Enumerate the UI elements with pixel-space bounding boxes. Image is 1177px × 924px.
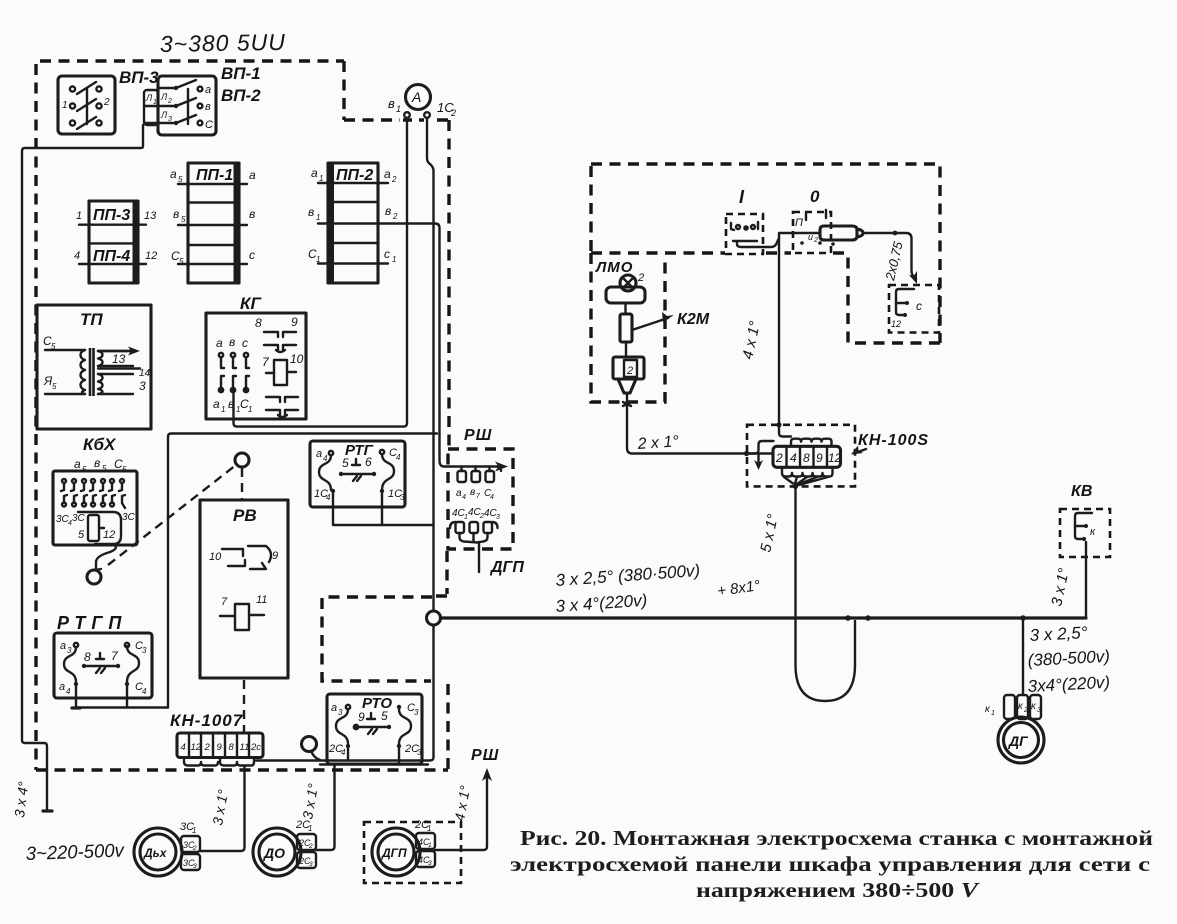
RTO bottom pin wires	[348, 748, 399, 765]
svg-text:а: а	[170, 167, 177, 181]
cabinet dashed border right upper step	[344, 61, 449, 449]
TP primary coil	[81, 350, 86, 394]
RTGP breaker tick	[96, 668, 105, 673]
svg-text:3: 3	[309, 861, 313, 868]
svg-text:8: 8	[229, 742, 235, 753]
svg-text:4: 4	[181, 742, 186, 753]
svg-text:ДГП: ДГП	[381, 846, 407, 860]
switch box S1	[58, 76, 115, 134]
svg-text:К2М: К2М	[677, 311, 710, 328]
svg-text:2х0,75: 2х0,75	[882, 240, 906, 283]
svg-text:13: 13	[144, 210, 157, 222]
wire DO up to bottom run	[316, 765, 335, 851]
RTG thermal mark	[352, 459, 360, 465]
svg-text:3 х 2,5°: 3 х 2,5°	[1029, 623, 1088, 645]
svg-text:2: 2	[308, 843, 313, 850]
RSh feed arrowhead	[495, 462, 508, 472]
svg-text:П: П	[795, 217, 803, 229]
svg-text:3 х 1°: 3 х 1°	[1048, 567, 1073, 608]
TP arrow on lead 13	[98, 350, 136, 352]
RTO left S-curve	[336, 709, 348, 744]
KN-1005 dashed box	[747, 425, 855, 487]
LMO lamp holder	[606, 287, 645, 303]
wire KV to bus	[1085, 542, 1087, 618]
svg-text:3: 3	[414, 708, 419, 717]
LMO fuse body	[620, 314, 632, 342]
KN-1005 branch arrow down	[757, 455, 759, 464]
svg-text:1: 1	[316, 255, 320, 264]
button I contact dots	[731, 222, 758, 230]
KG lower contacts	[219, 376, 249, 392]
svg-text:а: а	[59, 681, 65, 693]
junction dot 2x1 at box edge	[744, 451, 749, 456]
svg-text:12: 12	[891, 319, 901, 329]
RTG bottom wires	[333, 493, 433, 525]
wire 2x1 LMO to KN-1005	[627, 406, 773, 454]
svg-text:4: 4	[396, 453, 401, 462]
svg-text:12: 12	[828, 451, 842, 465]
svg-text:РШ: РШ	[471, 747, 499, 764]
KN-1005 top lugs	[791, 439, 832, 447]
svg-text:КН-100S: КН-100S	[858, 432, 929, 449]
RSh upper end hook	[497, 467, 501, 472]
RTGP left S-curve	[64, 647, 76, 682]
wire solenoid to C box (2x0.75)	[863, 233, 916, 279]
motor DO inner circle	[259, 834, 295, 870]
svg-text:РТО: РТО	[362, 695, 392, 712]
KN-1005 leader arrow	[858, 449, 866, 452]
KN-1005 bottom lugs	[782, 467, 833, 476]
svg-text:в: в	[205, 101, 211, 113]
TP secondary coil 1	[98, 351, 103, 366]
svg-text:1: 1	[62, 100, 68, 111]
KN-1005 bottom merge	[784, 477, 828, 486]
switch VP contacts	[176, 80, 196, 124]
svg-text:3 х 2,5° (380·500v): 3 х 2,5° (380·500v)	[555, 561, 701, 590]
KG bottom contact pair 2	[266, 410, 298, 417]
RTO pin C3	[397, 705, 401, 709]
svg-text:С: С	[205, 119, 213, 131]
svg-text:а: а	[216, 336, 223, 350]
terminal 1C2	[424, 112, 430, 118]
motor DBH outer circle	[134, 828, 182, 876]
svg-text:а: а	[311, 166, 318, 180]
contactor box KG	[206, 313, 306, 419]
relay box RTG	[310, 441, 405, 507]
RTGP wire end tick	[72, 706, 80, 709]
motor DGP inner circle	[378, 834, 414, 870]
relay box RTGP	[54, 633, 152, 698]
svg-text:1: 1	[991, 710, 995, 717]
wire solenoid lead	[779, 232, 820, 234]
svg-text:3 х 4°(220v): 3 х 4°(220v)	[555, 591, 648, 616]
RTGP pin C3	[125, 643, 129, 647]
svg-text:7: 7	[221, 596, 228, 608]
KV connector symbol	[1075, 513, 1092, 539]
RTO contact bar	[356, 726, 389, 728]
svg-text:9: 9	[358, 710, 365, 724]
motor DG inner circle	[1004, 723, 1039, 758]
svg-text:(380-500v): (380-500v)	[1027, 647, 1110, 670]
dashed link circle to RV	[241, 468, 243, 499]
solenoid cylinder	[820, 226, 857, 240]
svg-text:3: 3	[428, 860, 432, 867]
svg-text:2: 2	[626, 365, 633, 377]
KG upper contacts	[219, 353, 249, 368]
svg-text:0: 0	[810, 187, 820, 206]
RSh connector dashed box	[448, 449, 513, 549]
RTG pin 1C3	[380, 489, 384, 493]
KN-1007 cell dividers	[189, 733, 249, 758]
DBH terminal box upper	[181, 836, 200, 852]
DO terminal box lower	[297, 852, 316, 868]
svg-text:2: 2	[103, 97, 110, 108]
svg-text:I: I	[739, 187, 745, 207]
svg-text:ВП-2: ВП-2	[221, 86, 261, 105]
wire KN-1005 down and U-turn	[796, 486, 856, 701]
wire I to riser	[737, 238, 779, 247]
svg-text:2: 2	[637, 272, 644, 284]
terminal box L1	[144, 90, 158, 125]
KG contact second row with tick	[264, 345, 296, 352]
right cabinet dash border outline	[591, 164, 940, 343]
fuse block PP-3/PP-4	[89, 201, 138, 283]
C connector dashed box	[889, 285, 939, 333]
DGP terminal box upper	[416, 833, 435, 849]
fuse block PP-2	[328, 163, 378, 283]
svg-text:5: 5	[342, 456, 349, 470]
RSh lower connector squares	[456, 522, 465, 533]
svg-text:с: с	[916, 299, 922, 313]
RTO right S-curve	[399, 709, 411, 744]
DBH terminal box lower	[181, 854, 200, 870]
RTG left S-curve	[319, 455, 331, 490]
KN-1005 cell dividers	[787, 446, 828, 467]
svg-text:ДО: ДО	[263, 845, 285, 861]
cabinet dashed border bottom	[36, 768, 448, 771]
wire 1C2 terminal down to node	[427, 118, 434, 610]
svg-text:1: 1	[248, 405, 252, 414]
svg-text:3: 3	[400, 493, 405, 502]
2x0.75 arrowhead	[909, 271, 917, 284]
svg-text:1: 1	[396, 104, 401, 114]
svg-text:4: 4	[326, 493, 331, 502]
svg-text:12: 12	[103, 529, 115, 541]
cabinet dashed border right lower	[446, 684, 449, 770]
svg-text:а: а	[74, 457, 81, 471]
svg-text:ВП-3: ВП-3	[119, 68, 159, 87]
svg-text:3 х 1°: 3 х 1°	[299, 782, 321, 821]
svg-text:в: в	[229, 335, 235, 349]
PP-1 rungs	[178, 184, 247, 264]
svg-text:1: 1	[316, 213, 320, 222]
motor DGP outer circle	[372, 828, 420, 876]
RTGP pin C4	[125, 682, 129, 686]
svg-text:7: 7	[262, 355, 270, 369]
svg-text:ДГП: ДГП	[489, 559, 524, 576]
TP primary leads	[45, 350, 85, 394]
right cabinet dash bottom-left segment	[591, 166, 846, 253]
svg-text:2: 2	[167, 98, 172, 105]
C connector symbol	[896, 289, 914, 315]
svg-text:3: 3	[139, 379, 146, 393]
svg-text:7: 7	[111, 649, 119, 663]
ammeter A	[406, 85, 431, 110]
LMO compartment dashed box	[591, 253, 665, 402]
svg-text:в: в	[94, 456, 100, 470]
svg-text:1: 1	[308, 824, 312, 833]
wire bus to DG	[1022, 618, 1024, 695]
wire L-box to VP row2	[145, 105, 176, 107]
button I dashed box	[726, 214, 763, 254]
dashed link RV to KN-1007	[243, 680, 245, 732]
svg-text:2: 2	[392, 212, 398, 221]
RSh upper connector squares	[458, 471, 467, 482]
KG coil	[274, 360, 287, 385]
PP-2 rungs	[318, 183, 388, 264]
svg-text:КН-1007: КН-1007	[170, 711, 244, 730]
push button stem	[311, 751, 320, 760]
svg-text:6: 6	[365, 455, 372, 469]
KN-1005 inner branch	[747, 441, 774, 454]
svg-text:Рис. 20. Монтажная электросхем: Рис. 20. Монтажная электросхема станка с…	[520, 826, 1153, 850]
svg-text:КГ: КГ	[240, 294, 262, 313]
KN-1005 connector body	[773, 446, 841, 467]
motor DO outer circle	[253, 828, 301, 876]
svg-text:РТГП: РТГП	[57, 613, 127, 633]
wire riser junction to RSh	[440, 434, 503, 467]
svg-text:8: 8	[803, 451, 810, 465]
LMO plug inner 2	[624, 360, 637, 377]
svg-text:9: 9	[291, 315, 298, 329]
svg-text:3: 3	[1037, 707, 1041, 714]
RTO pin 2C4	[346, 744, 350, 748]
svg-text:1: 1	[392, 255, 396, 264]
TP mid tap bar	[98, 367, 140, 369]
wire DGP to RSh arrow	[435, 775, 487, 850]
PP-1 thick right bar	[234, 163, 240, 283]
svg-text:в: в	[385, 204, 391, 218]
RV coil	[235, 604, 249, 630]
svg-text:ПП-1: ПП-1	[196, 167, 233, 184]
PP-2 thick left bar	[328, 163, 334, 283]
svg-text:2: 2	[391, 175, 397, 184]
RTG pin 1C4	[331, 489, 335, 493]
button 0 dashed box	[793, 212, 831, 253]
svg-text:9: 9	[217, 742, 223, 753]
svg-text:Л: Л	[160, 110, 168, 120]
svg-text:5: 5	[181, 215, 186, 224]
RTGP bottom wires	[76, 686, 168, 708]
svg-text:ЛМО: ЛМО	[595, 259, 633, 276]
DG terminal tabs	[1004, 695, 1015, 719]
RTGP right S-curve	[127, 646, 139, 682]
svg-text:2: 2	[775, 451, 783, 465]
junction dot KN-1005 bottom	[793, 484, 798, 489]
svg-text:4: 4	[490, 494, 494, 501]
PP-3/4 rungs	[79, 225, 146, 264]
DO terminal box upper	[297, 834, 316, 850]
svg-text:2: 2	[1023, 707, 1028, 714]
svg-text:12: 12	[191, 742, 202, 753]
svg-text:РШ: РШ	[464, 427, 492, 444]
svg-text:с: с	[384, 247, 390, 261]
switch S1 contacts	[77, 82, 96, 129]
svg-text:3х4°(220v): 3х4°(220v)	[1027, 673, 1110, 696]
cabinet dashed border top	[40, 59, 344, 62]
svg-text:3: 3	[338, 708, 343, 717]
LMO funnel	[618, 379, 636, 393]
DGP motor dashed box	[364, 822, 461, 883]
svg-text:8: 8	[255, 316, 262, 330]
KN-1007 bottom lugs	[184, 758, 254, 766]
svg-text:2: 2	[813, 237, 818, 244]
LMO lamp circle with X	[620, 275, 636, 291]
svg-text:5 х 1°: 5 х 1°	[757, 513, 782, 554]
svg-text:с: с	[242, 336, 248, 350]
svg-text:4 х 1°: 4 х 1°	[451, 784, 473, 823]
svg-text:3 х 1°: 3 х 1°	[209, 788, 231, 827]
svg-text:напряжением 380÷500 V: напряжением 380÷500 V	[696, 878, 980, 902]
svg-text:1: 1	[76, 210, 82, 222]
svg-text:12: 12	[145, 250, 157, 262]
button I bottom wire	[733, 240, 757, 242]
RTO compartment dashed box	[322, 597, 432, 681]
LMO link wire	[625, 342, 627, 357]
KBH coil loop outline	[78, 512, 121, 544]
svg-text:в: в	[249, 207, 255, 221]
svg-text:10: 10	[209, 551, 222, 563]
terminal strip KN-1007 body	[177, 733, 263, 758]
RSh arrowhead up	[482, 768, 492, 781]
svg-text:в: в	[388, 96, 395, 111]
wire KBH to limit-switch circle	[96, 544, 116, 569]
svg-text:13: 13	[112, 352, 126, 366]
svg-text:КбХ: КбХ	[83, 435, 117, 454]
RTGP pin a4	[74, 682, 78, 686]
junction dot 4x1 at box edge	[776, 422, 781, 427]
button 0 contact dots	[800, 241, 804, 245]
junction dot at solenoid wire	[893, 231, 898, 236]
svg-text:11: 11	[240, 742, 250, 753]
svg-text:1: 1	[221, 405, 225, 414]
RSh lower end hooks	[450, 522, 498, 528]
svg-text:а: а	[331, 702, 337, 714]
RTO thermal mark	[367, 713, 375, 719]
svg-text:в: в	[308, 205, 314, 219]
svg-text:а: а	[316, 448, 322, 460]
RV delayed contact symbol	[222, 546, 271, 569]
RSh lower merge wires	[460, 533, 488, 543]
KBH wire end tick	[95, 569, 101, 570]
RTG pin a4	[329, 451, 333, 455]
svg-text:3~380 5UU: 3~380 5UU	[160, 29, 286, 57]
TP secondary 2 leads	[98, 374, 133, 394]
motor DBH inner circle	[140, 834, 176, 870]
wire 3x4 end tick	[43, 809, 52, 812]
svg-text:5: 5	[179, 257, 184, 266]
RTG pin C4	[380, 450, 384, 454]
LMO junction x	[623, 402, 631, 406]
wire from L-box down-left to TP	[22, 125, 143, 810]
KBH coil	[88, 515, 99, 541]
svg-text:с: с	[249, 248, 255, 262]
svg-text:Дьх: Дьх	[143, 846, 168, 860]
wire L-box to VP row1	[158, 87, 176, 89]
svg-text:14: 14	[139, 368, 151, 379]
svg-text:КВ: КВ	[1071, 483, 1092, 500]
svg-text:1: 1	[428, 842, 432, 849]
svg-text:1: 1	[427, 824, 431, 833]
KBH lower contact row	[62, 495, 125, 508]
TP secondary coil 2	[98, 374, 103, 394]
svg-text:+ 8х1°: + 8х1°	[716, 577, 761, 600]
wire v1 terminal to KG loop	[234, 118, 408, 427]
fuse block PP-1	[188, 163, 239, 283]
svg-text:1: 1	[192, 826, 196, 835]
wire node down to bottom run	[256, 625, 434, 761]
svg-text:5: 5	[78, 529, 85, 541]
svg-text:3С: 3С	[122, 512, 136, 523]
dashed actuator link diagonal	[108, 465, 236, 565]
TP secondary 1 leads and arrow	[98, 351, 134, 366]
svg-text:3: 3	[417, 748, 422, 757]
svg-text:4: 4	[341, 748, 346, 757]
svg-text:7: 7	[476, 493, 481, 500]
actuator circle upper	[235, 453, 249, 467]
svg-text:3 х 4°: 3 х 4°	[11, 780, 31, 818]
svg-text:ПП-2: ПП-2	[336, 167, 373, 184]
node junction circle	[427, 611, 441, 625]
KG bottom contact pair 1	[266, 397, 298, 402]
main bus wire	[441, 616, 1087, 619]
svg-text:3: 3	[496, 514, 500, 521]
LMO stem	[624, 303, 626, 314]
svg-text:4: 4	[66, 687, 71, 696]
PP-3/4 thick right bar	[133, 201, 139, 283]
solenoid tip	[857, 229, 863, 237]
svg-text:9: 9	[272, 550, 278, 562]
svg-text:5: 5	[381, 709, 388, 723]
KG NO contact top	[264, 332, 296, 337]
svg-text:2: 2	[450, 108, 456, 118]
svg-text:в: в	[173, 207, 179, 221]
svg-text:Л: Л	[145, 93, 153, 103]
RTO pin a3	[346, 705, 350, 709]
KV dashed box	[1060, 509, 1110, 557]
DGP terminal box lower	[416, 851, 435, 867]
solenoid top ticks	[806, 210, 826, 220]
transformer box TP	[37, 305, 151, 429]
relay box RTO	[327, 694, 422, 764]
terminal v1	[404, 112, 410, 118]
svg-text:а: а	[249, 168, 256, 182]
RSh upper connector stems	[462, 467, 490, 472]
dashed link RSh to node	[436, 551, 447, 596]
wire 4x1 riser	[779, 234, 791, 437]
svg-text:4: 4	[462, 494, 466, 501]
limit switch circle lower	[87, 570, 101, 584]
RTG contact bar	[341, 473, 374, 475]
RTGP contact bar	[84, 665, 118, 667]
svg-text:3~220-500v: 3~220-500v	[25, 841, 125, 865]
svg-text:а: а	[213, 397, 220, 411]
svg-text:ДГ: ДГ	[1008, 733, 1029, 749]
RTG breaker tick	[353, 476, 361, 481]
svg-text:3С: 3С	[72, 513, 86, 524]
bus junction dots	[845, 615, 851, 621]
cabinet dashed border left	[34, 64, 37, 770]
